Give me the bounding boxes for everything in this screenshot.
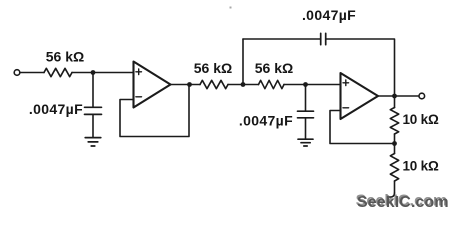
- svg-text:.0047µF: .0047µF: [302, 7, 356, 23]
- svg-text:56 kΩ: 56 kΩ: [255, 60, 293, 76]
- svg-text:56 kΩ: 56 kΩ: [194, 60, 232, 76]
- svg-text:56 kΩ: 56 kΩ: [46, 49, 84, 65]
- svg-text:.0047µF: .0047µF: [239, 112, 293, 128]
- svg-text:10 kΩ: 10 kΩ: [403, 112, 439, 127]
- svg-text:SeekIC.com: SeekIC.com: [357, 194, 449, 211]
- svg-text:.0047µF: .0047µF: [29, 101, 83, 117]
- svg-text:10 kΩ: 10 kΩ: [403, 159, 439, 174]
